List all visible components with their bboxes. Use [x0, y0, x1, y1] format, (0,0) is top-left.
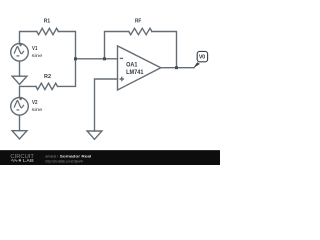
- svg-text:V2: V2: [32, 100, 37, 106]
- svg-text:RF: RF: [135, 19, 142, 25]
- svg-text:Somador Real: Somador Real: [60, 155, 92, 159]
- svg-text:LM741: LM741: [126, 70, 144, 76]
- svg-text:http://circuitlab.com/c/9pw4r: http://circuitlab.com/c/9pw4r: [45, 159, 83, 163]
- svg-text:sine: sine: [32, 107, 43, 113]
- svg-text:0: 0: [202, 55, 205, 61]
- svg-text:R1: R1: [44, 19, 51, 25]
- svg-text:OA1: OA1: [126, 63, 138, 69]
- svg-text:amaral /: amaral /: [45, 155, 59, 159]
- svg-text:V1: V1: [32, 46, 37, 52]
- svg-text:sine: sine: [32, 53, 43, 59]
- svg-text:LAB: LAB: [23, 158, 34, 163]
- svg-text:R2: R2: [44, 74, 51, 80]
